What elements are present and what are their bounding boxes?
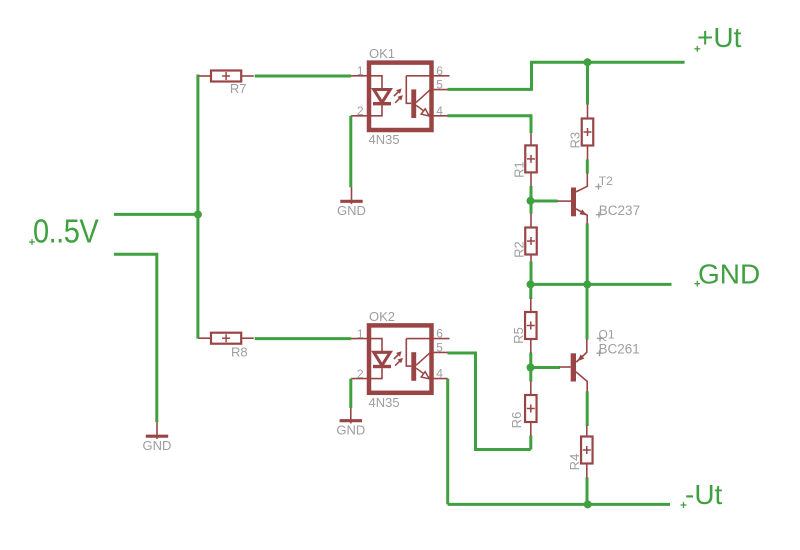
svg-text:2: 2 (357, 367, 364, 381)
svg-text:T2: T2 (599, 174, 613, 188)
svg-text:6: 6 (436, 64, 443, 78)
svg-text:BC261: BC261 (599, 341, 640, 356)
svg-text:GND: GND (336, 423, 365, 438)
svg-text:R2: R2 (511, 241, 526, 258)
svg-text:1: 1 (357, 327, 364, 341)
svg-text:0..5V: 0..5V (33, 213, 99, 250)
svg-text:R6: R6 (509, 412, 524, 429)
svg-text:GND: GND (337, 203, 366, 218)
svg-text:-Ut: -Ut (685, 479, 723, 510)
svg-text:R1: R1 (511, 161, 526, 178)
svg-text:R8: R8 (231, 345, 248, 360)
svg-text:6: 6 (436, 327, 443, 341)
svg-text:GND: GND (698, 259, 760, 290)
svg-text:BC237: BC237 (599, 203, 640, 218)
svg-text:Q1: Q1 (599, 328, 615, 342)
svg-text:R5: R5 (511, 327, 526, 344)
svg-text:2: 2 (357, 104, 364, 118)
svg-text:5: 5 (436, 341, 443, 355)
svg-text:4: 4 (436, 367, 443, 381)
svg-text:R7: R7 (230, 81, 247, 96)
svg-text:R4: R4 (567, 454, 582, 471)
svg-text:4N35: 4N35 (369, 132, 400, 147)
svg-text:OK2: OK2 (369, 309, 395, 324)
svg-text:4N35: 4N35 (369, 395, 400, 410)
svg-text:OK1: OK1 (369, 46, 395, 61)
svg-text:5: 5 (436, 78, 443, 92)
svg-text:1: 1 (357, 64, 364, 78)
svg-text:GND: GND (143, 438, 172, 453)
svg-text:+Ut: +Ut (697, 22, 742, 53)
svg-text:R3: R3 (567, 132, 582, 149)
svg-text:4: 4 (436, 104, 443, 118)
